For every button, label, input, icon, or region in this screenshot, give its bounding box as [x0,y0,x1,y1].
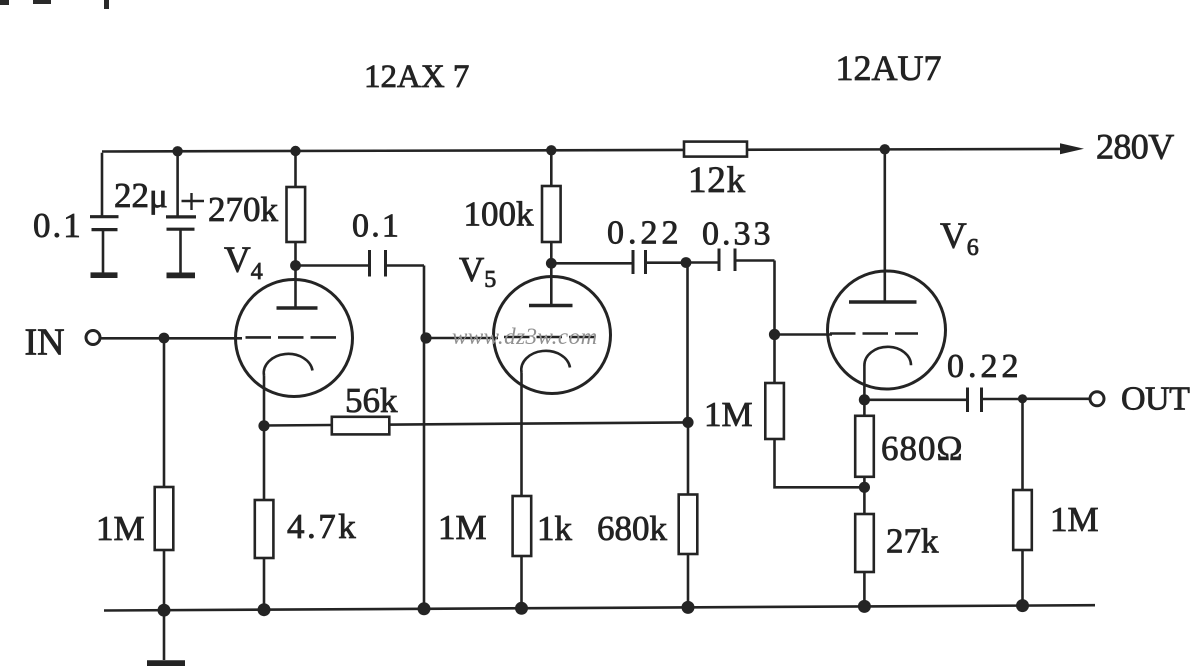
resistor 680 ohm [855,416,874,477]
V4 cathode lead [263,376,266,427]
svg-text:1M: 1M [96,509,145,548]
arrowhead for 280V rail [1060,143,1084,154]
node: ground rail junctions [158,599,1030,617]
wire: 680k to ground rail [687,554,690,607]
wire: output node down to 1M [1021,399,1024,490]
wire: V6 grid node to tube [775,333,833,336]
V4 anode lead [294,266,297,309]
top edge scan artifact marks [0,0,109,9]
wire: corner down to V5 grid node [423,266,426,340]
wire: 1k to ground rail [520,556,523,608]
resistor 1M (output) [1013,490,1032,550]
svg-text:0.1: 0.1 [33,206,83,245]
capacitor 0.1 (left bypass) [90,217,119,230]
capacitor 0.22 output [968,388,982,413]
tube V5 envelope [494,277,611,394]
resistor 12k in supply rail [684,142,747,157]
wire: V5 grid node to tube [426,337,498,340]
wire: input node down to 1M [163,338,166,487]
wire: 1M to ground rail [1021,550,1024,606]
resistor 27k [855,514,874,572]
svg-text:0.1: 0.1 [352,208,401,245]
wire: 680 ohm to junction [863,477,866,488]
wire: input to V4 grid [100,337,242,340]
node: V5 grid junction [420,332,431,343]
svg-text:1M: 1M [704,395,753,434]
IN terminal [86,331,100,345]
node: caps junction [681,257,692,268]
V5 cathode hook [521,351,570,373]
node: 680k top junction [682,417,693,428]
wire: output node to OUT terminal [1023,397,1091,400]
chassis terminal bar of 22u cap [167,272,196,278]
wire: caps junction down to 680k/56k node [686,263,689,423]
wire: caps junction to 0.33 cap [688,261,720,264]
resistor 1k [513,496,532,556]
wire: 1M down to corner and right to cathode node [775,439,865,487]
wire: bottom ground rail [104,605,1095,610]
V6 cathode hook [864,347,911,366]
node: V4 cathode junction [258,420,269,431]
tube V6 envelope [828,271,946,389]
node: V6 cathode junction [859,394,870,405]
V4 grid (dashed) [246,336,340,339]
svg-text:0.33: 0.33 [702,216,774,253]
node: rail junction at 270k [290,146,300,156]
V5 anode lead [550,263,553,305]
capacitor 22u electrolytic [166,217,196,229]
wire: node down to 680k [687,422,690,494]
svg-text:56k: 56k [345,381,398,420]
capacitor 0.1 coupling [370,250,386,277]
wire: rail to V6 anode [883,149,886,302]
V5 anode plate bar [529,304,573,307]
V5 grid (dashed) [504,336,596,339]
V4 anode plate bar [277,306,318,309]
V6 anode plate bar [849,300,917,303]
wire: 280V top supply rail [102,149,1062,152]
wire: V4 anode node to coupling cap [296,264,370,267]
wire: left drop from rail to 0.1 cap [101,153,104,217]
capacitor 0.22 (interstage) [633,250,646,274]
resistor 1M (V6 grid) [765,383,784,439]
plus sign of 22u cap [182,193,205,210]
V5 cathode lead [520,373,523,497]
svg-text:1k: 1k [537,509,573,548]
wire: 0.33 cap to corner [735,259,775,262]
wire: rail to 270k [294,151,297,187]
svg-text:0.22: 0.22 [607,215,683,252]
capacitor 0.33 [719,249,735,272]
svg-text:12k: 12k [688,160,746,201]
wire: 22u lower stem [179,229,182,273]
svg-text:680k: 680k [597,509,668,548]
svg-text:100k: 100k [464,195,535,234]
wire: rail to 100k [550,150,553,186]
wire: 27k to ground rail [863,572,866,607]
wire: 56k feedback run [264,422,688,425]
wire: V6 cathode node to output cap [864,398,967,401]
svg-text:12AX 7: 12AX 7 [364,59,469,95]
node: V6 grid junction [769,329,780,340]
svg-text:www.dz3w.com: www.dz3w.com [452,324,598,349]
wire: 0.22 cap to caps junction [646,261,688,264]
resistor 56k [332,417,390,435]
tube V4 envelope [236,280,353,397]
wire: 1M to ground rail [163,550,166,610]
node: rail junction at 100k [546,145,556,155]
wire: V6 cathode node to 680 ohm [863,400,866,416]
node: V5 anode junction [546,258,557,269]
wire: V6 grid node down to 1M [773,335,776,384]
svg-text:1M: 1M [1050,500,1099,539]
resistor 4.7k [255,500,274,558]
resistor 100k [542,186,561,242]
node: rail junction at 22u [172,146,182,156]
svg-text:680Ω: 680Ω [881,429,964,468]
resistor 680k [679,495,698,555]
ground [163,610,166,660]
resistor 1M (input) [155,487,174,550]
wire: 0.1 cap lower stem [102,230,105,273]
node: V4 anode junction [290,260,301,271]
V4 cathode hook [264,354,313,376]
svg-text:0.22: 0.22 [947,348,1023,385]
svg-text:27k: 27k [886,522,939,561]
wire: 100k to V5 anode node [550,242,553,264]
svg-text:280V: 280V [1096,127,1174,167]
wire: drop from rail to 22u cap [176,151,179,217]
wire: V5 anode to 0.22 cap [551,262,633,265]
wire: output cap to output node [982,398,1023,401]
svg-text:IN: IN [25,322,65,364]
wire: coupling cap to corner [386,264,425,267]
svg-text:V4: V4 [224,240,263,285]
node: rail junction at V6 [880,144,890,154]
svg-text:12AU7: 12AU7 [836,48,942,88]
svg-text:V5: V5 [459,250,496,293]
svg-text:OUT: OUT [1121,381,1190,418]
wire: 4.7k to ground rail [263,558,266,610]
svg-text:270k: 270k [208,190,279,229]
svg-text:4.7k: 4.7k [287,507,358,546]
wire: 270k to V4 anode node [294,242,297,266]
node: input junction at 1M [159,333,170,344]
node: output junction [1018,394,1027,403]
resistor 270k [287,187,306,242]
node: 680/27k junction [859,482,870,493]
svg-text:22μ: 22μ [114,176,168,215]
svg-text:1M: 1M [438,508,487,547]
wire: V4 cathode to 4.7k [263,426,266,500]
V6 cathode lead [863,365,866,400]
svg-text:V6: V6 [940,216,979,261]
wire: corner down to V6 grid node [773,261,776,336]
chassis terminal bar of 0.1 cap [91,272,118,278]
V6 grid (dashed) [830,332,918,335]
wire: junction to 27k [863,487,866,514]
wire: V5 grid node down to 1M and rail [423,338,426,609]
OUT terminal [1090,392,1104,406]
